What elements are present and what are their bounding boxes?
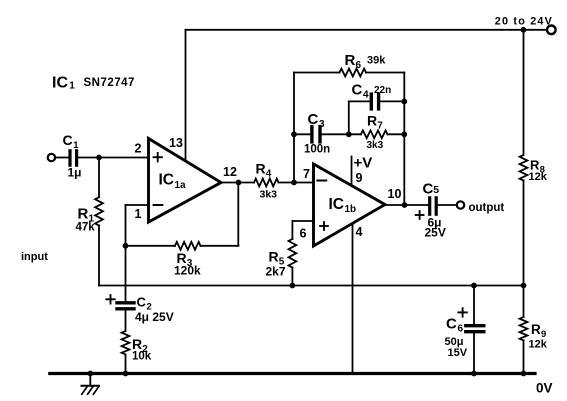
svg-text:2k7: 2k7 bbox=[266, 265, 286, 279]
svg-text:7: 7 bbox=[377, 121, 383, 132]
svg-text:3: 3 bbox=[319, 119, 325, 130]
svg-text:C: C bbox=[63, 132, 73, 148]
svg-text:IC: IC bbox=[159, 172, 175, 189]
svg-text:12k: 12k bbox=[529, 171, 548, 183]
svg-text:C: C bbox=[352, 81, 363, 98]
svg-text:10: 10 bbox=[388, 187, 402, 201]
svg-text:output: output bbox=[469, 202, 505, 214]
svg-text:1: 1 bbox=[135, 207, 142, 221]
svg-text:7: 7 bbox=[303, 167, 310, 181]
svg-text:input: input bbox=[21, 251, 48, 263]
svg-text:R: R bbox=[256, 161, 266, 177]
svg-text:20 to 24V: 20 to 24V bbox=[495, 15, 553, 27]
svg-text:39k: 39k bbox=[367, 55, 386, 67]
svg-text:C: C bbox=[423, 181, 434, 198]
svg-text:13: 13 bbox=[169, 136, 183, 150]
svg-text:47k: 47k bbox=[76, 222, 96, 234]
svg-text:6: 6 bbox=[457, 324, 463, 335]
svg-text:+V: +V bbox=[354, 155, 373, 172]
svg-text:C: C bbox=[446, 316, 457, 333]
svg-text:1μ: 1μ bbox=[68, 166, 82, 180]
svg-text:10k: 10k bbox=[132, 351, 152, 363]
svg-text:IC: IC bbox=[329, 196, 345, 213]
svg-text:R: R bbox=[78, 206, 89, 223]
svg-text:1: 1 bbox=[69, 81, 75, 92]
svg-text:5: 5 bbox=[433, 184, 439, 196]
svg-text:3k3: 3k3 bbox=[260, 189, 278, 201]
svg-text:9: 9 bbox=[356, 171, 363, 185]
svg-text:1: 1 bbox=[73, 140, 79, 151]
svg-text:1b: 1b bbox=[345, 204, 357, 215]
svg-text:12k: 12k bbox=[529, 339, 548, 351]
svg-text:15V: 15V bbox=[448, 347, 468, 359]
svg-text:2: 2 bbox=[135, 142, 142, 156]
svg-text:6: 6 bbox=[356, 60, 362, 71]
svg-text:4: 4 bbox=[356, 225, 363, 239]
svg-text:25V: 25V bbox=[425, 226, 446, 240]
svg-text:22n: 22n bbox=[374, 85, 391, 96]
svg-text:C: C bbox=[308, 111, 319, 128]
svg-text:R: R bbox=[531, 322, 541, 337]
svg-text:IC: IC bbox=[52, 75, 68, 92]
svg-text:R: R bbox=[269, 249, 279, 265]
svg-text:100n: 100n bbox=[304, 144, 330, 156]
svg-text:1a: 1a bbox=[175, 180, 187, 191]
svg-text:0V: 0V bbox=[536, 380, 553, 395]
svg-text:R: R bbox=[367, 113, 377, 129]
svg-text:3k3: 3k3 bbox=[367, 140, 384, 151]
svg-text:50μ: 50μ bbox=[445, 336, 464, 348]
svg-text:4μ 25V: 4μ 25V bbox=[135, 310, 174, 324]
svg-text:SN72747: SN72747 bbox=[84, 77, 135, 89]
svg-text:6: 6 bbox=[300, 227, 307, 241]
svg-text:12: 12 bbox=[223, 165, 237, 179]
svg-text:C: C bbox=[137, 295, 147, 310]
svg-text:120k: 120k bbox=[174, 264, 201, 278]
svg-text:R: R bbox=[345, 52, 356, 69]
svg-text:4: 4 bbox=[266, 169, 272, 180]
svg-text:4: 4 bbox=[363, 89, 369, 100]
